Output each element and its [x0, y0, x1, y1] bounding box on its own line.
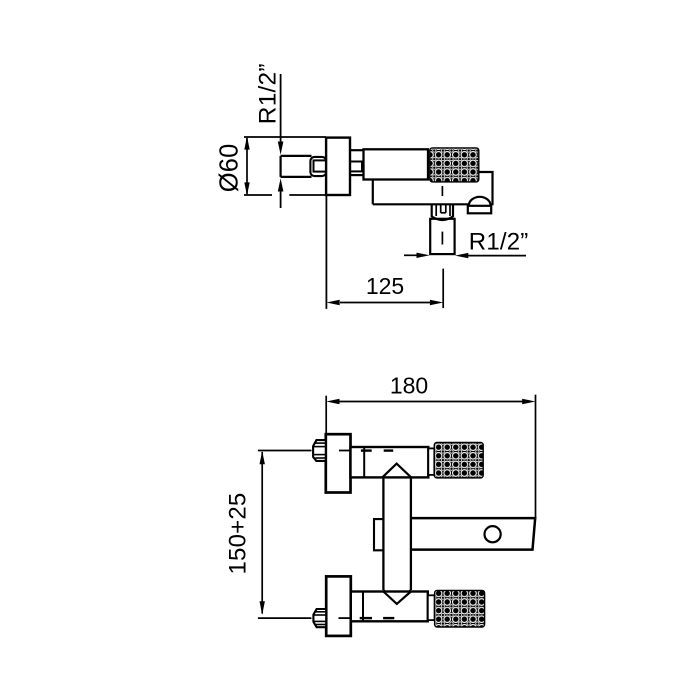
125 left extension line (wall line)	[325, 195, 327, 309]
bottom valve body inner line	[362, 592, 364, 622]
dimension 150+25	[258, 451, 312, 619]
diverter hex nut (side view)	[432, 204, 453, 220]
bottom chevron (column tip, drawn over body)	[383, 592, 411, 604]
arrowhead up at pipe bottom	[278, 178, 284, 191]
supply pipe (side view)	[281, 156, 312, 177]
valve body cylinder (side view)	[364, 149, 429, 179]
wall escutcheon (side view)	[326, 138, 350, 195]
svg-text:180: 180	[390, 372, 428, 398]
arrowhead down at pipe top	[278, 142, 284, 155]
svg-text:150+25: 150+25	[225, 493, 252, 575]
dimension R1/2" upper leader line	[280, 74, 282, 143]
centerline below handle and through hose	[441, 186, 443, 245]
dimension Ø60 extension lines	[244, 137, 326, 195]
dimension 180	[326, 395, 535, 518]
top valve centerline ticks	[339, 450, 393, 452]
bottom valve body (front view)	[351, 592, 428, 622]
bottom valve centerline ticks	[339, 617, 395, 619]
bottom knurled handle (front view)	[435, 590, 485, 627]
spout (front view)	[411, 518, 535, 550]
svg-text:R1/2”: R1/2”	[255, 63, 282, 124]
central column	[383, 477, 411, 603]
hose R1/2 dimension arrows	[404, 254, 526, 256]
union nut (side view)	[310, 157, 326, 176]
Ø60 arrowheads	[244, 136, 249, 149]
bottom valve union nut (front view)	[313, 609, 326, 627]
lower mixer block (side view)	[373, 172, 493, 205]
dimension R1/2" lower leader line	[280, 190, 282, 208]
spout screw circle	[485, 526, 501, 542]
spout dome and plate (side view)	[468, 197, 491, 214]
diverter tab on column	[374, 519, 383, 550]
bottom valve neck	[428, 595, 435, 620]
bottom valve escutcheon (front view)	[326, 576, 351, 636]
svg-text:Ø60: Ø60	[216, 143, 244, 192]
top valve union nut (front view)	[313, 440, 326, 461]
top valve body (front view)	[351, 447, 429, 477]
top valve escutcheon (front view)	[326, 434, 351, 492]
neck sleeve between escutcheon and body (side view)	[350, 150, 364, 175]
top chevron (column tip)	[382, 464, 411, 478]
dimension 125	[340, 269, 443, 309]
svg-text:125: 125	[366, 273, 404, 299]
knurled handle (side view)	[430, 148, 479, 182]
top valve body inner line	[363, 447, 365, 477]
svg-text:R1/2”: R1/2”	[469, 229, 529, 256]
top knurled handle (front view)	[434, 443, 483, 478]
hose outlet tube (side view)	[430, 219, 454, 254]
top valve neck	[428, 448, 434, 475]
